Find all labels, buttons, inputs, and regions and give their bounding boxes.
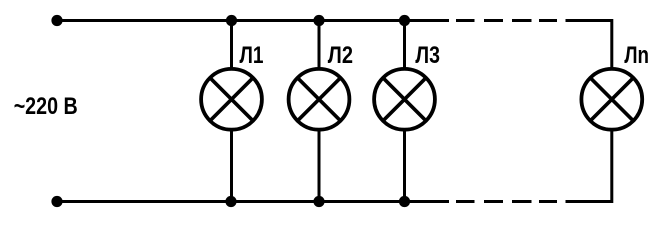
svg-text:Л3: Л3 [415,42,440,69]
svg-text:~220 В: ~220 В [14,93,78,120]
svg-text:Л1: Л1 [240,42,264,69]
svg-text:Л2: Л2 [328,42,353,69]
svg-text:Лn: Лn [624,42,649,69]
